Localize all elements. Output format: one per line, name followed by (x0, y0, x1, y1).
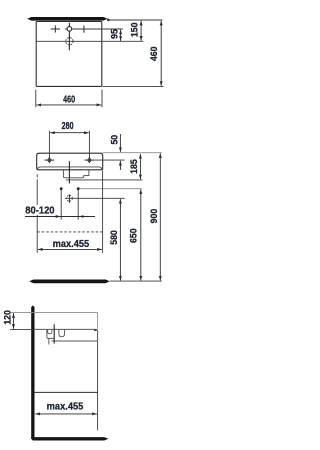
overflow reference line to 185 dim (66, 179, 142, 181)
lower mounting line (35, 391, 98, 393)
max height dashed line (37, 231, 102, 233)
460 horizontal dim line (37, 104, 102, 106)
280 right extension line (88, 131, 90, 160)
front extension line down (97, 341, 99, 430)
900 dim line (159, 153, 161, 280)
overflow cup profile (59, 330, 65, 337)
floor bar (side view) (31, 437, 108, 440)
centre vertical crosshair line (68, 23, 70, 51)
right water supply dot (77, 187, 80, 190)
wall extension line to 460 dim (108, 19, 162, 21)
185 dim line (139, 154, 141, 179)
right extension below basin (101, 90, 103, 108)
wall bar (top view) (27, 17, 107, 21)
svg-text:120: 120 (2, 310, 12, 325)
max.455 dim line (front) (38, 248, 102, 250)
80-120 dim line (25, 216, 95, 218)
50 dim upper arrow (119, 134, 121, 152)
tap clearance top line (10, 312, 97, 314)
right supply vertical line (77, 190, 79, 220)
580 dim line (119, 199, 121, 281)
right tap hole cross (83, 26, 85, 33)
80-120 label background (24, 205, 55, 215)
svg-text:900: 900 (148, 209, 158, 224)
drain funnel cup (48, 330, 52, 334)
svg-text:280: 280 (62, 120, 74, 131)
wall bar (side view) (31, 305, 34, 438)
fixing holes extension line to 50 dim (94, 159, 125, 161)
95 dim line (120, 30, 122, 41)
deck extension line (left of wall) (10, 328, 34, 330)
left fixing hole cross (45, 157, 55, 163)
right basin extension vertical (102, 171, 104, 253)
waste trap dashed circle (67, 195, 73, 201)
deck level arrowhead (94, 329, 97, 331)
svg-text:460: 460 (63, 93, 75, 104)
svg-text:50: 50 (109, 135, 119, 145)
top edge reference line to 900 dim (103, 152, 162, 154)
waste trap cross (68, 194, 70, 203)
left basin extension vertical (36, 174, 38, 177)
waste trap reference line to 580 dim (65, 197, 125, 199)
floor thin line to 900 dim (110, 280, 162, 282)
drain hole dashed circle (66, 38, 73, 45)
max.455 dim line (side) (35, 413, 97, 415)
150 dim line (140, 21, 142, 41)
svg-text:max.455: max.455 (47, 401, 84, 412)
inner rim line (38, 167, 102, 170)
faucet hole circle (67, 27, 72, 32)
svg-text:650: 650 (128, 228, 138, 243)
280 left extension line (48, 131, 50, 160)
centre line (front view) (68, 161, 70, 183)
drain axis line (53, 324, 55, 343)
svg-text:580: 580 (109, 230, 119, 245)
left water supply dot (60, 187, 63, 190)
left extension below basin (35, 90, 37, 108)
svg-text:max.455: max.455 (53, 239, 90, 250)
supply extension line to 650 dim (80, 188, 142, 190)
basin outline (front view) (37, 153, 103, 170)
drain funnel profile (47, 330, 54, 339)
drain axis line across basin to 150 dim (36, 40, 143, 42)
50 dim lower arrow (119, 161, 121, 170)
drain pipe stub (48, 338, 50, 344)
basin profile deck and front (35, 329, 98, 341)
floor bar (front view) (29, 280, 110, 284)
wall reference dot (107, 19, 110, 22)
basin outline (top view) (36, 21, 102, 86)
80-120 left arrow (54, 216, 60, 218)
650 dim line (140, 189, 142, 280)
svg-text:185: 185 (129, 159, 139, 174)
svg-text:95: 95 (109, 29, 119, 39)
svg-text:460: 460 (149, 47, 159, 62)
svg-text:150: 150 (129, 23, 139, 38)
120 dim line (13, 313, 15, 329)
left supply vertical line (60, 190, 62, 220)
basin bottom extension line to 460 dim (103, 86, 164, 88)
svg-text:80-120: 80-120 (25, 205, 54, 216)
tap clearance right edge (97, 313, 99, 329)
faucet extension line to 95 dim (65, 28, 123, 30)
460 vertical dim line (160, 21, 162, 86)
80-120 right arrow (79, 216, 85, 218)
siphon recess under basin (63, 170, 89, 178)
left tap hole cross (51, 25, 60, 32)
right fixing hole cross (85, 157, 95, 163)
280 dim line (50, 132, 89, 134)
